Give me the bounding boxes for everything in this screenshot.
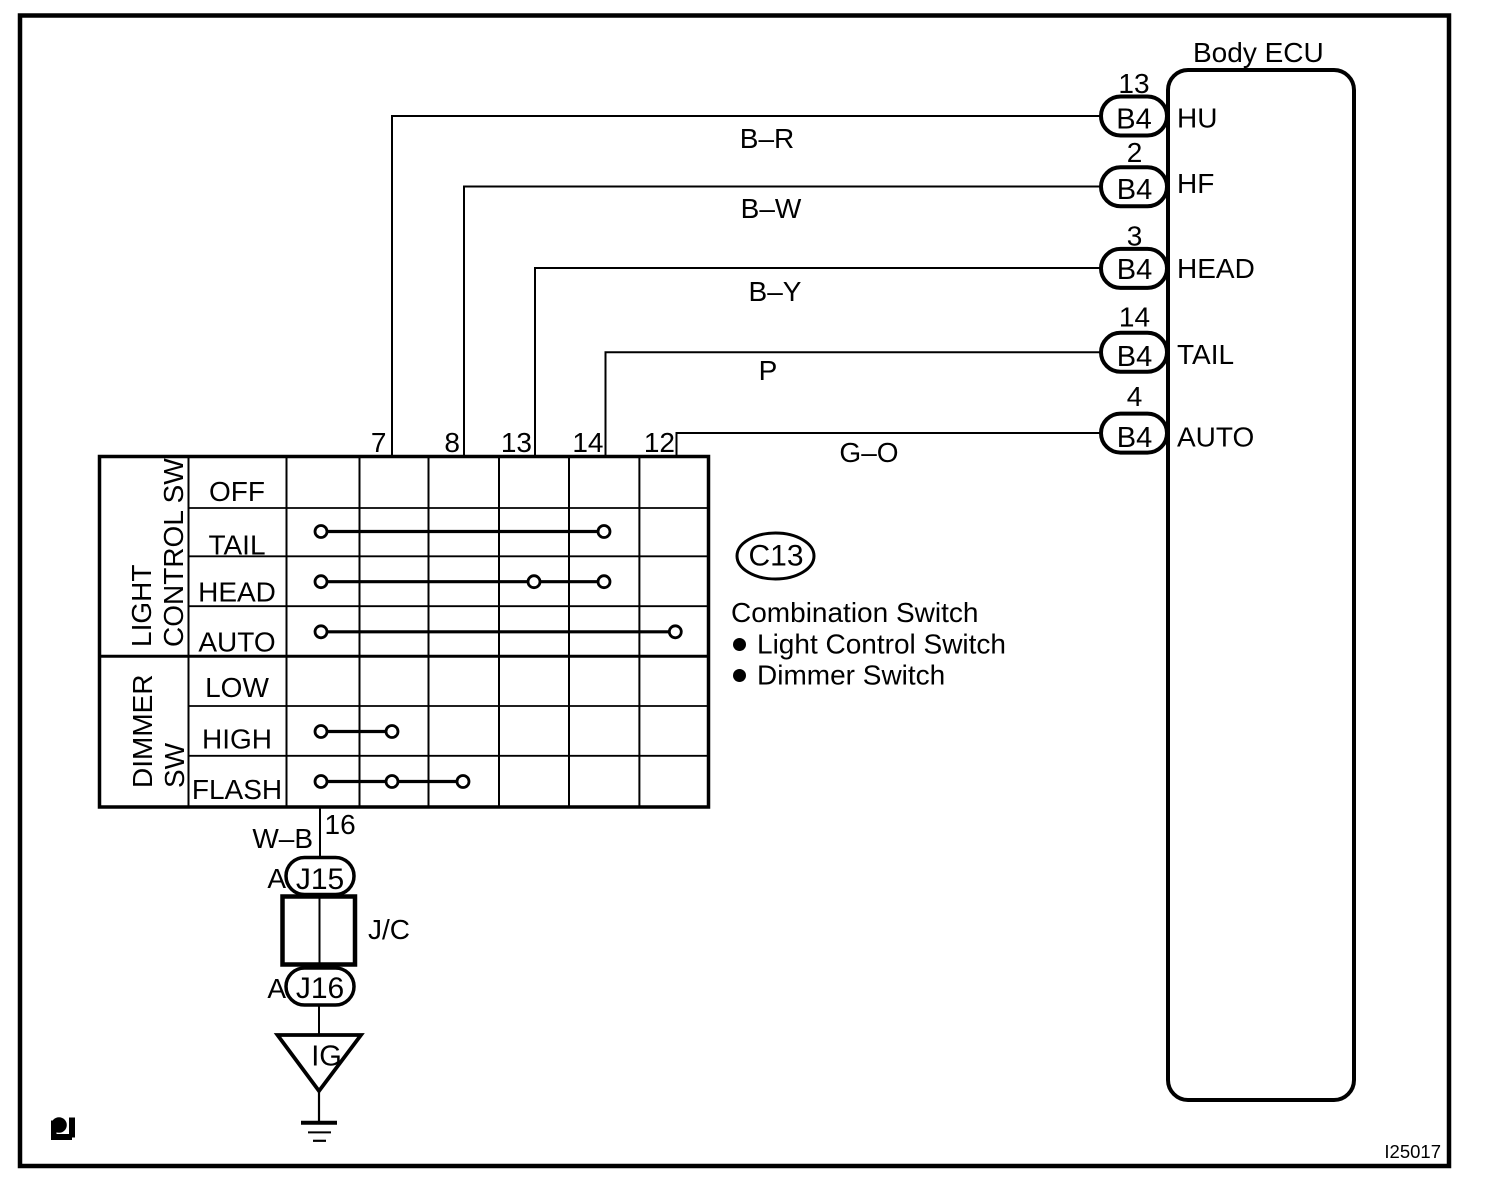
- connector B4 pin3 HEAD: [1101, 221, 1255, 288]
- svg-text:P: P: [759, 355, 778, 386]
- wire IG to ground: [318, 1091, 320, 1122]
- wire pin7 B-R: [392, 116, 1101, 456]
- svg-text:B–R: B–R: [740, 123, 794, 154]
- svg-text:B4: B4: [1116, 104, 1151, 136]
- svg-text:DIMMER: DIMMER: [127, 674, 158, 788]
- svg-text:B4: B4: [1117, 254, 1152, 286]
- svg-text:CONTROL SW: CONTROL SW: [158, 458, 189, 647]
- label DIMMER SW: [127, 674, 190, 788]
- svg-text:LOW: LOW: [205, 672, 269, 703]
- svg-text:B4: B4: [1117, 422, 1152, 454]
- svg-text:AUTO: AUTO: [198, 627, 275, 658]
- svg-text:FLASH: FLASH: [192, 774, 282, 805]
- svg-text:IG: IG: [311, 1041, 342, 1073]
- svg-text:OFF: OFF: [209, 476, 265, 507]
- svg-text:J16: J16: [296, 972, 344, 1005]
- svg-text:Combination Switch: Combination Switch: [731, 597, 978, 628]
- svg-text:2: 2: [1127, 137, 1143, 168]
- svg-text:8: 8: [444, 427, 460, 458]
- svg-text:W–B: W–B: [252, 823, 313, 854]
- power symbol IG: [278, 1035, 362, 1091]
- svg-text:Dimmer Switch: Dimmer Switch: [757, 660, 945, 691]
- bullet 1: [733, 638, 746, 651]
- svg-text:J15: J15: [296, 863, 344, 896]
- junction connector J/C: [283, 897, 411, 965]
- connector J16: [267, 968, 354, 1005]
- svg-text:B–Y: B–Y: [749, 276, 802, 307]
- svg-text:HU: HU: [1177, 103, 1217, 134]
- contact HIGH row: [315, 726, 398, 738]
- svg-text:14: 14: [1119, 302, 1150, 333]
- bullet 2: [733, 669, 746, 682]
- svg-text:13: 13: [501, 427, 532, 458]
- svg-text:13: 13: [1118, 68, 1149, 99]
- contact FLASH row: [315, 776, 469, 788]
- svg-text:HEAD: HEAD: [198, 577, 276, 608]
- connector B4 pin14 TAIL: [1101, 302, 1234, 374]
- svg-text:HEAD: HEAD: [1177, 253, 1255, 284]
- svg-text:A: A: [267, 863, 286, 894]
- svg-text:G–O: G–O: [839, 437, 898, 468]
- svg-text:I25017: I25017: [1384, 1141, 1441, 1162]
- svg-text:Light Control Switch: Light Control Switch: [757, 629, 1006, 660]
- wire pin14 P: [606, 352, 1102, 456]
- svg-text:TAIL: TAIL: [1177, 339, 1234, 370]
- connector J15: [267, 858, 354, 897]
- svg-text:LIGHT: LIGHT: [126, 565, 157, 647]
- ground: [301, 1123, 337, 1141]
- wire pin16 W-B: [319, 807, 321, 858]
- svg-text:B4: B4: [1117, 341, 1152, 373]
- svg-text:TAIL: TAIL: [208, 530, 265, 561]
- wire pin13 B-Y: [535, 268, 1101, 456]
- svg-text:HF: HF: [1177, 168, 1214, 199]
- svg-text:Body ECU: Body ECU: [1193, 37, 1324, 68]
- contact HEAD row: [315, 576, 610, 588]
- svg-text:4: 4: [1127, 381, 1143, 412]
- svg-text:7: 7: [371, 427, 387, 458]
- connector B4 pin13 HU: [1101, 68, 1217, 136]
- connector B4 pin2 HF: [1101, 137, 1214, 206]
- svg-text:A: A: [267, 973, 286, 1004]
- contact AUTO row: [315, 626, 681, 638]
- wire J16 to IG: [318, 1005, 320, 1035]
- svg-text:J/C: J/C: [368, 914, 410, 945]
- svg-text:AUTO: AUTO: [1177, 422, 1254, 453]
- svg-text:B4: B4: [1117, 174, 1152, 206]
- label LIGHT CONTROL SW: [126, 458, 189, 647]
- connector C13 oval: [737, 533, 814, 579]
- svg-text:C13: C13: [748, 540, 803, 573]
- svg-text:3: 3: [1127, 221, 1143, 252]
- wire pin8 B-W: [464, 187, 1101, 457]
- contact TAIL row: [315, 526, 610, 538]
- svg-text:SW: SW: [159, 742, 190, 788]
- svg-text:HIGH: HIGH: [202, 724, 272, 755]
- wire pin12 G-O: [677, 433, 1102, 456]
- Body ECU U1: [1168, 37, 1354, 1100]
- svg-text:B–W: B–W: [741, 193, 802, 224]
- svg-text:12: 12: [644, 427, 675, 458]
- connector B4 pin4 AUTO: [1101, 381, 1254, 454]
- svg-text:14: 14: [572, 427, 603, 458]
- svg-text:16: 16: [325, 809, 356, 840]
- corner mark icon: [51, 1117, 75, 1140]
- switch table S1: [100, 457, 710, 808]
